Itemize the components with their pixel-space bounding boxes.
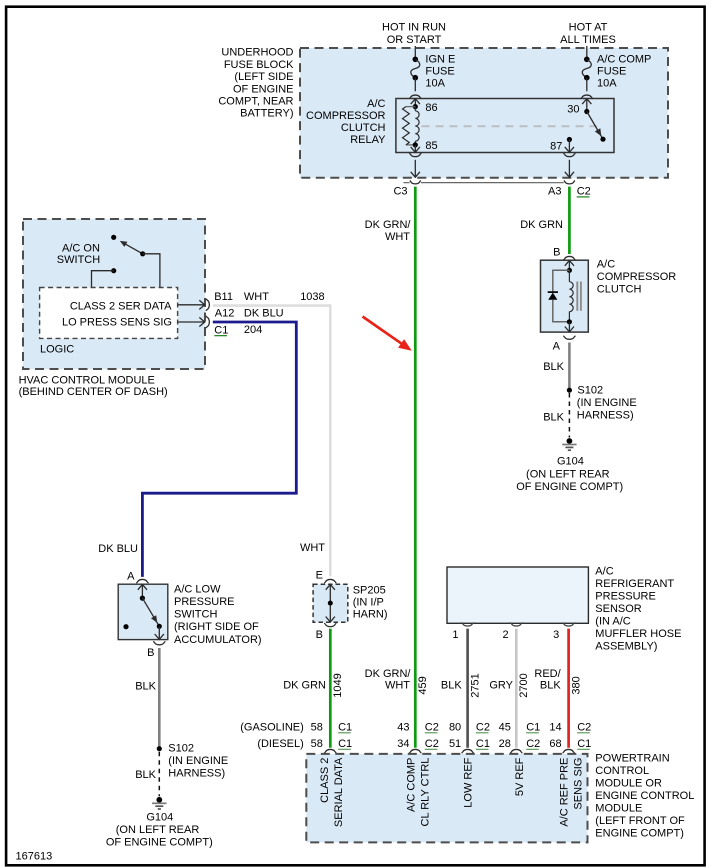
svg-text:A/C REF PRE: A/C REF PRE [558,758,570,827]
svg-text:SENSOR: SENSOR [595,603,642,615]
relay switch blade [587,112,603,140]
PCM entry cup sens sig [563,749,575,753]
svg-text:A/C: A/C [595,566,613,578]
svg-text:WHT: WHT [300,542,325,554]
svg-text:58: 58 [311,722,323,734]
svg-text:BLK: BLK [135,681,156,693]
relay K box (A/C compressor clutch relay) [396,99,614,153]
splice SP205 pin B cup [324,623,336,626]
svg-text:1: 1 [452,629,458,641]
svg-text:(DIESEL): (DIESEL) [257,738,303,750]
svg-text:WHT: WHT [244,291,269,303]
svg-text:C3: C3 [393,185,407,197]
svg-text:(IN A/C: (IN A/C [595,616,631,628]
HVAC output arrow B11 [178,304,205,306]
svg-text:RELAY: RELAY [350,134,386,146]
svg-text:A/C COMP: A/C COMP [405,758,417,812]
svg-text:B: B [147,647,154,659]
svg-text:CL RLY CTRL: CL RLY CTRL [419,758,431,827]
svg-text:204: 204 [244,324,262,336]
svg-text:SWITCH: SWITCH [57,254,100,266]
svg-text:DK GRN: DK GRN [283,680,326,692]
svg-text:LOGIC: LOGIC [40,343,74,355]
svg-text:5V REF: 5V REF [514,757,526,796]
PCM entry cup 5v ref [510,749,522,753]
svg-text:CLASS 2 SER DATA: CLASS 2 SER DATA [70,300,172,312]
wire DK BLU (A12 to pressure switch) [142,322,296,577]
HVAC control module box [23,219,205,369]
ground G104 left [156,797,162,803]
svg-text:WHT: WHT [385,231,410,243]
relay coil winding [414,107,416,111]
svg-text:(ON LEFT REAR: (ON LEFT REAR [116,824,200,836]
HVAC output arrow A12 [178,321,205,323]
svg-text:BATTERY): BATTERY) [240,108,293,120]
svg-text:A/C: A/C [367,98,385,110]
HVAC output cup B11 [206,299,209,311]
relay linkage dashed line [422,125,598,127]
PCM entry cup low ref [462,749,474,753]
fuse A/C COMP 10A [584,57,590,63]
svg-text:43: 43 [397,722,409,734]
svg-text:C2: C2 [476,722,490,734]
clutch bottom pin arrow [567,319,572,324]
wire GRY sensor pin2 to PCM [515,629,518,748]
svg-text:B: B [316,629,323,641]
svg-text:REFRIGERANT: REFRIGERANT [595,578,674,590]
HVAC output cup A12 [206,316,209,328]
red highlight arrow [363,317,405,346]
svg-text:FUSE: FUSE [425,66,454,78]
svg-text:DK BLU: DK BLU [244,307,284,319]
svg-text:FUSE: FUSE [597,66,626,78]
wire DK GRN (A3 to clutch) [568,187,571,254]
clutch coil winding [568,270,570,281]
pressure switch bottom pin arrow [158,626,160,639]
connector cup above relay pin 86 [409,95,421,99]
fuse IGN E 10A [413,57,419,63]
svg-text:A/C: A/C [597,258,615,270]
PCM entry cup class 2 [324,749,336,753]
svg-text:DK GRN/: DK GRN/ [365,668,412,680]
svg-text:COMPT, NEAR: COMPT, NEAR [218,96,293,108]
svg-text:A: A [553,341,561,353]
svg-text:CLASS 2: CLASS 2 [319,758,331,803]
svg-text:28: 28 [499,738,511,750]
A/C refrigerant pressure sensor box [447,567,588,623]
svg-text:BLK: BLK [441,680,462,692]
connector cup above relay pin 30 [581,95,593,99]
svg-text:BLK: BLK [543,361,564,373]
svg-text:LOW REF: LOW REF [463,757,475,807]
svg-text:A3: A3 [548,186,561,198]
svg-text:1049: 1049 [332,673,344,697]
svg-text:DK GRN: DK GRN [520,219,563,231]
svg-text:A/C ON: A/C ON [62,242,100,254]
svg-text:85: 85 [425,140,437,152]
relay pin 86 [411,99,420,104]
splice SP205 box [313,584,348,622]
relay pin 85 [413,142,418,147]
svg-text:G104: G104 [146,812,173,824]
clutch diode D1 [553,270,570,292]
svg-text:BLK: BLK [543,412,564,424]
svg-text:PRESSURE: PRESSURE [595,591,656,603]
svg-text:(IN ENGINE: (IN ENGINE [168,755,228,767]
svg-text:HVAC CONTROL MODULE: HVAC CONTROL MODULE [19,374,155,386]
svg-text:E: E [316,570,323,582]
svg-text:2751: 2751 [469,673,481,697]
A/C ON switch lower contact [111,268,116,273]
svg-text:2700: 2700 [518,673,530,697]
svg-text:IGN E: IGN E [425,54,455,66]
svg-text:MODULE OR: MODULE OR [595,778,662,790]
svg-text:ENGINE COMPT): ENGINE COMPT) [595,828,684,840]
svg-text:HOT AT: HOT AT [569,22,608,34]
svg-text:C2: C2 [425,722,439,734]
A/C low pressure switch box [118,584,168,639]
wire RED/BLK sensor pin3 to PCM [567,629,570,748]
svg-text:86: 86 [425,102,437,114]
A/C compressor clutch box [541,260,589,332]
pressure switch pin A cup [136,579,148,583]
wire hot-at-all-times feed [586,46,588,59]
svg-text:A12: A12 [215,307,235,319]
svg-text:G104: G104 [557,456,584,468]
svg-text:SWITCH: SWITCH [174,609,217,621]
wire BLK dashed to G104 right [568,393,570,438]
svg-text:DK GRN/: DK GRN/ [365,219,412,231]
svg-text:C2: C2 [526,738,540,750]
svg-text:A/C COMP: A/C COMP [597,54,651,66]
svg-text:S102: S102 [577,384,603,396]
splice S102 left [157,746,162,751]
clutch pin B cup [563,256,575,260]
svg-text:1038: 1038 [300,291,324,303]
powertrain control module box [306,754,587,843]
sensor pin 2 cup [510,623,522,626]
svg-text:87: 87 [550,141,562,153]
svg-text:HARN): HARN) [353,609,388,621]
svg-text:34: 34 [397,738,409,750]
svg-text:OF ENGINE: OF ENGINE [233,83,294,95]
svg-text:UNDERHOOD: UNDERHOOD [221,47,293,59]
clutch pin A cup [563,336,575,339]
LOGIC box [40,288,178,339]
svg-text:68: 68 [549,738,561,750]
svg-text:PRESSURE: PRESSURE [174,596,235,608]
svg-text:COMPRESSOR: COMPRESSOR [597,271,677,283]
svg-text:(ON LEFT REAR: (ON LEFT REAR [526,468,610,480]
svg-text:3: 3 [553,629,559,641]
pressure switch top pin arrow [138,584,147,589]
svg-text:80: 80 [449,722,461,734]
svg-text:MUFFLER HOSE: MUFFLER HOSE [595,628,681,640]
wire BLK clutch to S102 [568,343,571,391]
svg-text:(BEHIND CENTER OF DASH): (BEHIND CENTER OF DASH) [19,386,168,398]
splice S102 right [567,388,572,393]
svg-text:OF ENGINE COMPT): OF ENGINE COMPT) [516,481,623,493]
svg-text:167613: 167613 [16,851,53,863]
fuse block connector face line [404,182,410,184]
relay pin 30 [582,99,591,104]
svg-text:14: 14 [549,722,561,734]
svg-text:C2: C2 [577,186,591,198]
wire DK GRN (SP205 to PCM) [329,629,332,748]
svg-text:C1: C1 [214,324,228,336]
svg-text:ASSEMBLY): ASSEMBLY) [595,641,657,653]
svg-text:BLK: BLK [135,769,156,781]
svg-text:(IN ENGINE: (IN ENGINE [577,397,637,409]
svg-text:CONTROL: CONTROL [595,765,649,777]
svg-text:SENS SIG: SENS SIG [572,758,584,810]
svg-text:FUSE BLOCK: FUSE BLOCK [224,59,294,71]
svg-text:(LEFT FRONT OF: (LEFT FRONT OF [595,815,685,827]
svg-text:(IN I/P: (IN I/P [353,597,384,609]
svg-text:S102: S102 [168,743,194,755]
svg-text:51: 51 [449,738,461,750]
svg-text:(RIGHT SIDE OF: (RIGHT SIDE OF [174,621,259,633]
clutch plates [576,282,578,311]
svg-text:380: 380 [570,676,582,694]
svg-text:OF ENGINE COMPT): OF ENGINE COMPT) [106,837,213,849]
A/C ON switch [111,235,116,240]
wire WHT (B11 to SP205) [213,306,330,577]
relay 85 exit wire [409,153,421,156]
relay coil resistor zigzag [403,107,410,145]
svg-text:A/C LOW: A/C LOW [174,584,221,596]
svg-text:SP205: SP205 [353,585,386,597]
svg-text:WHT: WHT [385,680,410,692]
svg-text:459: 459 [417,676,429,694]
svg-text:COMPRESSOR: COMPRESSOR [306,110,386,122]
svg-text:HARNESS): HARNESS) [168,768,225,780]
underhood fuse block box [300,48,668,178]
clutch top pin arrow [565,260,574,265]
svg-text:OR START: OR START [387,34,442,46]
connector A3 cup [564,181,575,184]
svg-text:C2: C2 [577,722,591,734]
svg-text:10A: 10A [425,78,445,90]
ground G104 right [567,438,573,444]
sensor pin 3 cup [563,623,575,626]
svg-text:58: 58 [311,738,323,750]
relay coil stubs [406,106,415,108]
pressure switch pin B cup [153,641,165,644]
svg-text:RED/: RED/ [534,668,561,680]
svg-text:A: A [127,570,135,582]
svg-text:ALL TIMES: ALL TIMES [560,34,616,46]
svg-text:CLUTCH: CLUTCH [341,122,386,134]
svg-text:ENGINE CONTROL: ENGINE CONTROL [595,790,694,802]
svg-text:C1: C1 [476,738,490,750]
svg-text:30: 30 [567,103,579,115]
wire hot-in-run feed [414,46,416,59]
svg-text:45: 45 [499,722,511,734]
svg-text:POWERTRAIN: POWERTRAIN [595,753,669,765]
svg-text:CLUTCH: CLUTCH [597,283,642,295]
PCM entry cup a/c comp [409,749,421,753]
sensor pin 1 cup [462,623,474,626]
svg-text:HARNESS): HARNESS) [577,409,634,421]
splice SP205 pin E cup [324,579,336,583]
wire DK GRN/WHT (C3 to PCM) [414,187,417,748]
svg-text:B: B [553,247,560,259]
svg-text:10A: 10A [597,78,617,90]
svg-text:B11: B11 [214,291,233,303]
pressure switch open contact [123,624,128,629]
pressure switch blade [142,598,159,626]
svg-text:2: 2 [502,629,508,641]
svg-text:(LEFT SIDE: (LEFT SIDE [234,71,293,83]
svg-text:BLK: BLK [540,680,561,692]
connector C3 cup [410,181,421,184]
svg-text:MODULE: MODULE [595,803,642,815]
svg-text:ACCUMULATOR): ACCUMULATOR) [174,634,262,646]
relay pin 87 [567,137,572,142]
svg-text:C2: C2 [425,738,439,750]
svg-text:HOT IN RUN: HOT IN RUN [382,22,446,34]
svg-text:C1: C1 [577,738,591,750]
svg-text:(GASOLINE): (GASOLINE) [240,722,304,734]
wire BLK dashed to G104 left [158,752,160,797]
svg-text:C1: C1 [338,738,352,750]
svg-text:C1: C1 [526,722,540,734]
svg-text:SERIAL DATA: SERIAL DATA [333,757,345,827]
relay 87 exit wire [563,153,575,156]
svg-text:DK BLU: DK BLU [98,543,138,555]
svg-text:C1: C1 [338,722,352,734]
svg-text:GRY: GRY [489,680,513,692]
wire BLK sensor pin1 to PCM [466,629,469,748]
svg-text:LO PRESS SENS SIG: LO PRESS SENS SIG [62,316,172,328]
splice SP205 through wire [326,584,335,589]
wire BLK switch to S102 [158,648,161,749]
